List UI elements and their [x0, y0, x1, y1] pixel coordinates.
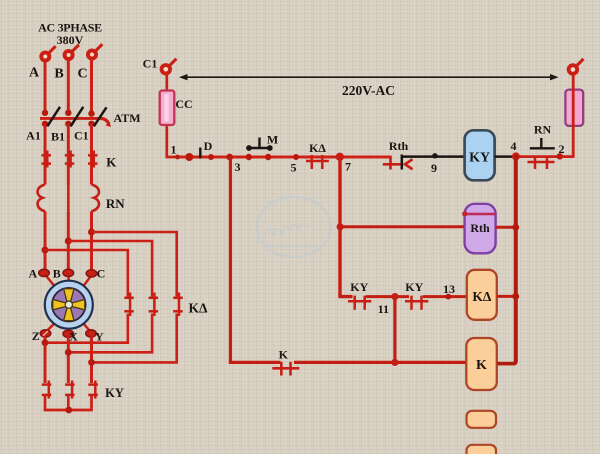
svg-text:X: X [69, 330, 78, 344]
timer coil Rth [462, 204, 496, 254]
overload heater RN phase A [38, 185, 45, 212]
node phase C branch [88, 229, 95, 236]
contact RN NC overload [528, 123, 555, 170]
wire C1 to fuse [165, 74, 168, 93]
contactor contact K pole A [42, 151, 52, 168]
wire delta branch C [92, 232, 177, 297]
contact KD pole 3 [173, 293, 208, 317]
contact Rth timer delay [383, 139, 413, 170]
node 7 [336, 153, 351, 174]
node bus KD [512, 293, 519, 300]
overload heater RN phase C [92, 185, 126, 212]
node 4 [511, 139, 520, 160]
node 13 [443, 282, 455, 300]
node 1 [171, 143, 194, 162]
node Z junction [42, 339, 49, 346]
svg-text:RN: RN [106, 196, 125, 211]
contact KD pole 1 [124, 293, 134, 317]
node 9 [431, 153, 438, 175]
svg-text:D: D [204, 139, 213, 153]
svg-text:C: C [97, 266, 106, 280]
wire node 3 branch down [229, 158, 232, 361]
watermark [257, 197, 331, 257]
svg-text:RN: RN [534, 123, 552, 137]
wire coil KD to bus [497, 295, 516, 298]
wire timer coil to bus [496, 226, 516, 229]
node timer tap [337, 223, 344, 230]
terminal B [54, 45, 79, 82]
node phase A branch [42, 247, 49, 254]
svg-text:Rth: Rth [389, 139, 409, 153]
wire K branch left [230, 360, 280, 363]
svg-text:ATM: ATM [113, 111, 140, 125]
node 5 [291, 154, 300, 175]
contact KD NC [306, 141, 329, 169]
contactor contact K pole C [88, 151, 117, 170]
wire motor lead X [67, 328, 70, 332]
svg-text:4: 4 [511, 139, 517, 153]
contact KD pole 2 [149, 293, 159, 317]
svg-text:Z: Z [32, 329, 40, 343]
push button D stop [200, 139, 214, 160]
contact KY pole Z [42, 381, 52, 399]
svg-text:3: 3 [235, 160, 241, 174]
svg-text:KΔ: KΔ [309, 141, 326, 155]
svg-text:K: K [476, 358, 487, 373]
contactor coil K [466, 338, 497, 390]
node phase B branch [65, 238, 72, 245]
title AC 3PHASE 380V [38, 21, 102, 47]
wire phase A middle [44, 124, 47, 185]
svg-text:220V-AC: 220V-AC [342, 83, 395, 98]
motor M [45, 281, 93, 329]
svg-text:9: 9 [431, 161, 437, 175]
svg-text:A: A [28, 266, 37, 280]
wire motor lead Y [83, 323, 90, 331]
svg-text:A: A [29, 66, 40, 81]
arrow 220V-AC [179, 74, 559, 98]
contact KY pole Y [88, 381, 124, 401]
node 11 [378, 293, 399, 316]
motor terminal C [86, 266, 105, 280]
svg-text:B: B [53, 266, 61, 280]
terminal right [567, 59, 584, 76]
svg-text:C1: C1 [74, 129, 89, 143]
wire K branch right [294, 361, 468, 364]
svg-text:380V: 380V [57, 33, 84, 47]
push button M start [246, 132, 279, 160]
wire phase C middle [90, 124, 93, 185]
overload heater RN phase B [67, 185, 70, 212]
svg-text:C: C [77, 67, 87, 82]
svg-text:2: 2 [559, 142, 565, 156]
svg-text:K: K [279, 347, 289, 361]
motor terminal Y [86, 330, 104, 344]
svg-text:B: B [54, 67, 63, 82]
wire phase C lower [90, 211, 93, 271]
svg-text:M: M [267, 132, 278, 146]
wire coil KY to node 4 black [495, 155, 516, 158]
svg-text:KY: KY [405, 280, 423, 294]
svg-text:KY: KY [350, 280, 368, 294]
bus node 4 down [513, 155, 516, 364]
wire star X [67, 337, 70, 383]
wire to timer coil [340, 225, 465, 228]
svg-text:KΔ: KΔ [189, 300, 209, 315]
motor terminal A [28, 266, 49, 280]
svg-text:K: K [106, 155, 117, 170]
wire delta branch A [45, 250, 128, 297]
svg-text:KY: KY [469, 151, 490, 166]
wire delta down C [92, 314, 177, 363]
contactor coil KD [467, 270, 497, 320]
wire motor lead Z [46, 323, 55, 332]
svg-text:KΔ: KΔ [472, 289, 492, 304]
svg-text:13: 13 [443, 282, 455, 296]
svg-text:Y: Y [95, 330, 104, 344]
contactor contact K pole B [65, 151, 75, 168]
spare coil 2 [467, 445, 497, 454]
node 3 [226, 154, 240, 174]
svg-text:B1: B1 [51, 130, 65, 144]
fuse right [565, 90, 583, 126]
wire motor lead A [46, 276, 55, 287]
node X junction [65, 349, 72, 356]
wire delta down B [68, 314, 152, 353]
svg-text:KY: KY [105, 386, 124, 400]
wire phase A top [44, 61, 47, 113]
wire delta branch B [68, 241, 152, 297]
terminal C [77, 44, 102, 81]
wire phase B middle [67, 124, 70, 185]
wire control line 1 to Rth [176, 156, 392, 159]
wire branch KD mid [366, 295, 409, 298]
wire motor lead C [83, 276, 91, 286]
svg-text:11: 11 [378, 302, 389, 316]
wire branch KD coil [340, 294, 353, 297]
svg-text:1: 1 [171, 143, 177, 157]
node Y junction [88, 359, 95, 366]
spare coil 1 [467, 411, 497, 428]
wire coil K to bus [497, 362, 513, 366]
contact KY pole X [65, 381, 75, 399]
contact KY a [348, 280, 371, 310]
motor terminal X [63, 330, 78, 344]
breaker ATM [40, 107, 141, 127]
wire phase C top [90, 59, 93, 113]
svg-text:A1: A1 [26, 129, 41, 143]
wire branch KD right [423, 295, 468, 298]
svg-text:C1: C1 [143, 57, 158, 71]
motor terminal Z [32, 329, 51, 343]
motor terminal B [53, 266, 74, 280]
node 2 [557, 142, 565, 160]
terminal A [29, 46, 56, 80]
wire delta down A [45, 314, 128, 343]
terminal C1 [143, 57, 177, 76]
wire Rth to coil KY black [402, 155, 465, 158]
wire phase B lower [67, 211, 70, 270]
wire node 2 to terminal right [560, 74, 573, 157]
wire star Z [44, 337, 47, 384]
node bus timer [512, 224, 519, 231]
wire phase A lower [44, 211, 47, 270]
relay coil KY [465, 130, 495, 180]
wire node 7 branch down [338, 157, 341, 295]
wire motor lead B [67, 276, 70, 283]
svg-text:5: 5 [291, 161, 297, 175]
wire star point bus [45, 396, 92, 413]
node K junction [391, 359, 398, 366]
fuse CC [160, 91, 193, 126]
wire fuse to node 1 [167, 124, 178, 157]
wire star Y [90, 337, 93, 384]
wire phase B top [67, 60, 70, 113]
svg-text:CC: CC [175, 97, 192, 111]
svg-text:Rth: Rth [470, 221, 490, 235]
contact K self holding [272, 347, 299, 375]
wire node 4 to node 2 [514, 155, 561, 158]
wire node 11 down [393, 297, 396, 363]
svg-text:7: 7 [345, 160, 351, 174]
contact KY b [405, 280, 428, 310]
